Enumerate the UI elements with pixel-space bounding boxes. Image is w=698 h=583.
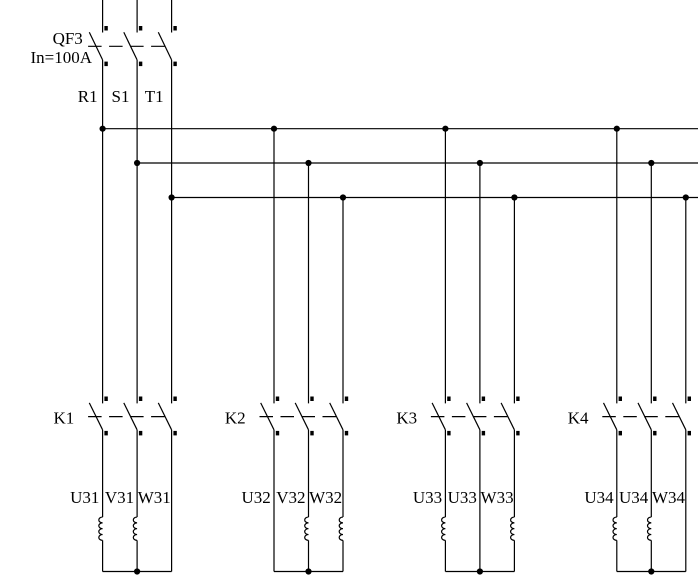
svg-text:K3: K3 xyxy=(396,409,417,428)
wire tap from bus L1 down to K3 pole 1 xyxy=(444,129,446,404)
K3 pole 2 bottom terminal xyxy=(482,431,485,436)
contactor K3 xyxy=(431,397,520,436)
svg-text:In=100A: In=100A xyxy=(31,48,93,67)
inductor L (branch K1 pole 2) xyxy=(133,517,137,540)
svg-text:U33: U33 xyxy=(448,488,477,507)
K1 pole 2 blade contact xyxy=(124,403,137,430)
inductor L (branch K2 pole 2) xyxy=(305,517,309,540)
svg-text:U32: U32 xyxy=(242,488,271,507)
wire inductor to star point (K3 pole 3) xyxy=(513,540,515,571)
wire K1 pole 1 to inductor xyxy=(102,430,104,517)
K2 mechanical linkage (dashed) xyxy=(260,416,337,418)
wire K1 pole 2 to inductor xyxy=(136,430,138,517)
wire inductor to star point (K2 pole 2) xyxy=(308,540,310,571)
wire inductor to star point (K2 pole 3) xyxy=(342,540,344,571)
junction bus L2 at branch K3 xyxy=(477,160,483,166)
bus L1 (R1) horizontal xyxy=(103,128,698,130)
wire S1 from QF3 pole 2 through bus L2 to K1 pole 2 xyxy=(136,60,138,404)
K4 pole 2 bottom terminal xyxy=(653,431,656,436)
wire K4 pole 2 to inductor xyxy=(650,430,652,517)
QF3 pole 3 top terminal xyxy=(173,26,176,31)
K1 pole 3 blade contact xyxy=(158,403,171,430)
star-point wire branch K1 xyxy=(103,571,172,573)
svg-text:K2: K2 xyxy=(225,409,246,428)
K4 pole 3 blade contact xyxy=(673,403,686,430)
K4 mechanical linkage (dashed) xyxy=(602,416,679,418)
svg-text:W33: W33 xyxy=(481,488,514,507)
junction bus L2 at branch K2 xyxy=(305,160,311,166)
contactor K2 xyxy=(260,397,349,436)
K2 pole 3 blade contact xyxy=(330,403,343,430)
wire K1 pole 3 straight to star point xyxy=(171,430,173,572)
wire incoming phase T to QF3 pole 3 xyxy=(171,0,173,33)
K1 pole 1 top terminal xyxy=(104,397,107,402)
K3 pole 3 top terminal xyxy=(516,397,519,402)
wire incoming phase S to QF3 pole 2 xyxy=(136,0,138,33)
junction bus L1 at branch K3 xyxy=(442,126,448,132)
svg-text:U33: U33 xyxy=(413,488,442,507)
inductor L (branch K4 pole 1) xyxy=(613,517,617,540)
K3 pole 1 bottom terminal xyxy=(447,431,450,436)
wire inductor to star point (K3 pole 1) xyxy=(444,540,446,571)
QF3 pole 2 blade contact xyxy=(124,32,137,60)
K1 pole 3 bottom terminal xyxy=(173,431,176,436)
svg-text:U31: U31 xyxy=(70,488,99,507)
K4 pole 1 bottom terminal xyxy=(619,431,622,436)
K2 pole 1 bottom terminal xyxy=(276,431,279,436)
svg-text:W34: W34 xyxy=(652,488,686,507)
QF3 pole 1 bottom terminal xyxy=(104,62,107,67)
K3 pole 2 top terminal xyxy=(482,397,485,402)
svg-text:K4: K4 xyxy=(568,409,589,428)
K2 pole 3 bottom terminal xyxy=(345,431,348,436)
QF3 pole 3 bottom terminal xyxy=(173,62,176,67)
junction bus L1 at branch K2 xyxy=(271,126,277,132)
K4 pole 1 top terminal xyxy=(619,397,622,402)
wire inductor to star point (K1 pole 2) xyxy=(136,540,138,571)
K3 pole 1 top terminal xyxy=(447,397,450,402)
K1 pole 1 bottom terminal xyxy=(104,431,107,436)
K2 pole 2 blade contact xyxy=(295,403,308,430)
K1 pole 3 top terminal xyxy=(173,397,176,402)
K2 pole 1 top terminal xyxy=(276,397,279,402)
svg-text:S1: S1 xyxy=(112,87,130,106)
svg-text:T1: T1 xyxy=(145,87,164,106)
wire tap from bus L2 down to K4 pole 2 xyxy=(650,163,652,403)
K2 pole 3 top terminal xyxy=(345,397,348,402)
wire inductor to star point (K1 pole 1) xyxy=(102,540,104,571)
svg-text:K1: K1 xyxy=(54,409,75,428)
contactor K4 xyxy=(602,397,691,436)
junction star point K2 xyxy=(305,568,311,574)
wire K3 pole 3 to inductor xyxy=(513,430,515,517)
inductor L (branch K4 pole 2) xyxy=(648,517,652,540)
inductor L (branch K2 pole 3) xyxy=(339,517,343,540)
junction bus L2 at branch K1 xyxy=(134,160,140,166)
bus L3 (T1) horizontal xyxy=(172,197,698,199)
K1 pole 2 top terminal xyxy=(139,397,142,402)
K3 mechanical linkage (dashed) xyxy=(431,416,508,418)
star-point wire branch K4 xyxy=(617,571,686,573)
inductor L (branch K3 pole 1) xyxy=(442,517,446,540)
junction bus L1 at branch K4 xyxy=(614,126,620,132)
svg-text:W31: W31 xyxy=(138,488,171,507)
wire tap from bus L3 down to K4 pole 3 xyxy=(685,198,687,404)
star-point wire branch K3 xyxy=(445,571,514,573)
K4 pole 3 top terminal xyxy=(688,397,691,402)
K1 mechanical linkage (dashed) xyxy=(88,416,165,418)
K3 pole 3 blade contact xyxy=(501,403,514,430)
K3 pole 2 blade contact xyxy=(467,403,480,430)
K3 pole 3 bottom terminal xyxy=(516,431,519,436)
svg-text:W32: W32 xyxy=(309,488,342,507)
svg-text:V31: V31 xyxy=(105,488,134,507)
QF3 mechanical linkage (dashed) xyxy=(88,45,165,47)
junction bus L3 at branch K2 xyxy=(340,194,346,200)
wire K3 pole 2 straight to star point xyxy=(479,430,481,572)
circuit breaker QF3 xyxy=(88,26,177,66)
wire K2 pole 2 to inductor xyxy=(308,430,310,517)
junction bus L3 at branch K1 xyxy=(169,194,175,200)
star-point wire branch K2 xyxy=(274,571,343,573)
junction bus L2 at branch K4 xyxy=(648,160,654,166)
K3 pole 1 blade contact xyxy=(432,403,445,430)
QF3 pole 3 blade contact xyxy=(158,32,171,60)
svg-text:QF3: QF3 xyxy=(53,29,83,48)
wire tap from bus L1 down to K2 pole 1 xyxy=(273,129,275,404)
QF3 pole 1 top terminal xyxy=(104,26,107,31)
junction star point K1 xyxy=(134,568,140,574)
svg-text:U34: U34 xyxy=(619,488,649,507)
K2 pole 2 top terminal xyxy=(310,397,313,402)
K2 pole 2 bottom terminal xyxy=(310,431,313,436)
junction star point K3 xyxy=(477,568,483,574)
QF3 pole 2 bottom terminal xyxy=(139,62,142,67)
inductor L (branch K3 pole 3) xyxy=(511,517,515,540)
wire inductor to star point (K4 pole 1) xyxy=(616,540,618,571)
K4 pole 1 blade contact xyxy=(604,403,617,430)
wire tap from bus L2 down to K3 pole 2 xyxy=(479,163,481,403)
wire R1 from QF3 pole 1 through bus L1 to K1 pole 1 xyxy=(102,60,104,404)
wire K2 pole 1 straight to star point xyxy=(273,430,275,572)
bus L2 (S1) horizontal xyxy=(137,162,698,164)
wire tap from bus L2 down to K2 pole 2 xyxy=(308,163,310,403)
junction bus L3 at branch K4 xyxy=(683,194,689,200)
wire K2 pole 3 to inductor xyxy=(342,430,344,517)
K4 pole 2 top terminal xyxy=(653,397,656,402)
junction bus L3 at branch K3 xyxy=(511,194,517,200)
wire T1 from QF3 pole 3 through bus L3 to K1 pole 3 xyxy=(171,60,173,404)
QF3 pole 2 top terminal xyxy=(139,26,142,31)
svg-text:U34: U34 xyxy=(584,488,614,507)
K4 pole 3 bottom terminal xyxy=(688,431,691,436)
junction star point K4 xyxy=(648,568,654,574)
inductor L (branch K1 pole 1) xyxy=(99,517,103,540)
wire tap from bus L3 down to K3 pole 3 xyxy=(513,198,515,404)
wire K4 pole 3 straight to star point xyxy=(685,430,687,572)
svg-text:V32: V32 xyxy=(276,488,305,507)
svg-text:R1: R1 xyxy=(78,87,98,106)
wire tap from bus L1 down to K4 pole 1 xyxy=(616,129,618,404)
K2 pole 1 blade contact xyxy=(261,403,274,430)
K1 pole 1 blade contact xyxy=(89,403,102,430)
wire K3 pole 1 to inductor xyxy=(444,430,446,517)
wire tap from bus L3 down to K2 pole 3 xyxy=(342,198,344,404)
K1 pole 2 bottom terminal xyxy=(139,431,142,436)
wire incoming phase R to QF3 pole 1 xyxy=(102,0,104,33)
QF3 pole 1 blade contact xyxy=(89,32,102,60)
contactor K1 xyxy=(88,397,177,436)
K4 pole 2 blade contact xyxy=(638,403,651,430)
wire inductor to star point (K4 pole 2) xyxy=(650,540,652,571)
junction bus L1 at branch K1 xyxy=(100,126,106,132)
wire K4 pole 1 to inductor xyxy=(616,430,618,517)
